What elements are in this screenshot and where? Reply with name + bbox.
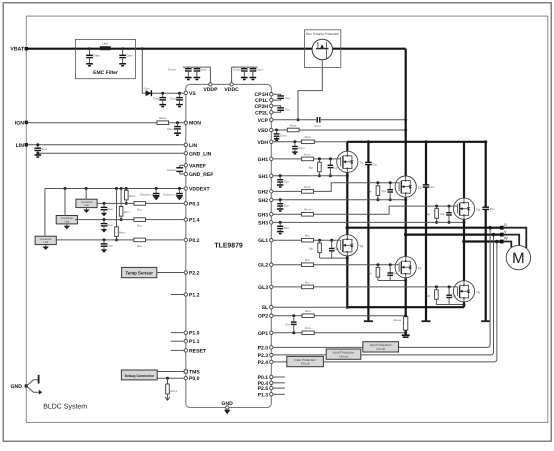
svg-text:M: M xyxy=(512,250,525,267)
svg-text:P1.2: P1.2 xyxy=(189,293,200,299)
svg-text:Debug Connector: Debug Connector xyxy=(125,374,155,378)
svg-text:T4: T4 xyxy=(359,245,363,249)
svg-text:SH3: SH3 xyxy=(258,220,268,226)
svg-text:U: U xyxy=(504,222,507,227)
svg-text:RESET: RESET xyxy=(189,348,207,354)
svg-text:Hall: Hall xyxy=(65,220,70,223)
svg-text:VDDC: VDDC xyxy=(224,87,239,93)
svg-text:VBAT: VBAT xyxy=(10,47,25,53)
svg-text:Cfilter: Cfilter xyxy=(126,54,133,58)
svg-text:T1: T1 xyxy=(359,161,363,165)
svg-text:P1.0: P1.0 xyxy=(189,331,200,337)
svg-text:LIN: LIN xyxy=(189,143,198,149)
svg-text:SH2: SH2 xyxy=(258,198,268,204)
svg-text:P2.5: P2.5 xyxy=(258,386,269,392)
svg-text:VDDP: VDDP xyxy=(203,87,218,93)
svg-text:Lfilter: Lfilter xyxy=(102,42,108,46)
svg-text:OP1: OP1 xyxy=(258,331,268,337)
svg-text:GL2: GL2 xyxy=(258,263,268,269)
svg-text:VDH: VDH xyxy=(257,140,268,146)
svg-text:VCP: VCP xyxy=(258,118,269,124)
svg-text:BLDC System: BLDC System xyxy=(43,404,87,411)
svg-text:P1.1: P1.1 xyxy=(189,339,200,345)
svg-text:VS: VS xyxy=(189,91,196,97)
svg-text:W: W xyxy=(504,236,508,241)
svg-text:VDDEXT: VDDEXT xyxy=(189,187,211,193)
svg-text:OP2: OP2 xyxy=(258,314,268,320)
svg-text:IGN: IGN xyxy=(15,120,24,126)
svg-text:Hall: Hall xyxy=(84,204,89,207)
svg-text:P0.0: P0.0 xyxy=(189,376,200,382)
svg-text:MON: MON xyxy=(189,121,201,127)
svg-text:Cfilter: Cfilter xyxy=(93,54,100,58)
svg-text:LIN: LIN xyxy=(16,143,25,149)
svg-text:Rev. Polarity Protection: Rev. Polarity Protection xyxy=(306,32,339,36)
svg-text:T6: T6 xyxy=(476,291,480,295)
svg-text:P2.4: P2.4 xyxy=(258,360,269,366)
svg-text:GL1: GL1 xyxy=(258,238,268,244)
svg-text:TLE9879: TLE9879 xyxy=(214,243,243,250)
svg-text:V: V xyxy=(504,229,507,234)
svg-text:T5: T5 xyxy=(418,266,422,270)
svg-text:P1.4: P1.4 xyxy=(189,218,200,224)
svg-text:Circuit: Circuit xyxy=(376,347,385,351)
svg-text:VAREF: VAREF xyxy=(189,163,206,169)
svg-text:GH2: GH2 xyxy=(258,189,269,195)
svg-text:GND_REF: GND_REF xyxy=(189,172,213,178)
svg-text:GL3: GL3 xyxy=(258,285,268,291)
svg-text:Temp Sensor: Temp Sensor xyxy=(125,271,153,276)
svg-text:GND_LIN: GND_LIN xyxy=(189,151,212,157)
svg-text:P1.3: P1.3 xyxy=(258,392,269,398)
svg-text:VSD: VSD xyxy=(258,128,269,134)
svg-text:CP2H: CP2H xyxy=(255,104,269,110)
svg-text:P0.2: P0.2 xyxy=(189,238,200,244)
svg-text:Circuit: Circuit xyxy=(339,354,348,358)
svg-text:GND: GND xyxy=(10,384,22,390)
svg-text:SH1: SH1 xyxy=(258,174,268,180)
svg-text:TMS: TMS xyxy=(189,370,200,376)
svg-text:GND: GND xyxy=(222,401,234,407)
svg-text:P2.2: P2.2 xyxy=(189,271,200,277)
svg-text:Circuit: Circuit xyxy=(301,362,310,366)
svg-text:CP2L: CP2L xyxy=(255,110,268,116)
svg-text:GH1: GH1 xyxy=(258,157,269,163)
svg-text:P2.0: P2.0 xyxy=(258,345,269,351)
svg-text:T2: T2 xyxy=(418,186,422,190)
svg-text:SL: SL xyxy=(262,305,269,311)
svg-text:P0.3: P0.3 xyxy=(189,201,200,207)
svg-text:P2.3: P2.3 xyxy=(258,353,269,359)
svg-text:EMC Filter: EMC Filter xyxy=(93,70,118,76)
svg-text:Hall: Hall xyxy=(43,241,48,244)
svg-text:T3: T3 xyxy=(476,208,480,212)
svg-text:GH3: GH3 xyxy=(258,212,269,218)
